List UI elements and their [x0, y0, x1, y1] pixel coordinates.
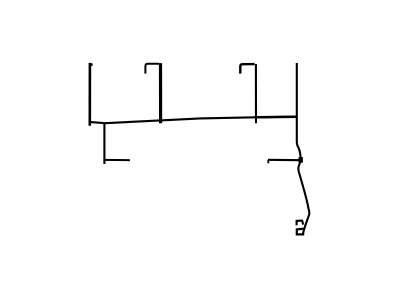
hook stub 1 (left tick of first hook)	[145, 64, 159, 74]
wire: main horizontal bus	[89, 117, 296, 124]
wire: bus right portion (slightly heavier stroke)	[258, 115, 297, 118]
wire: lower-left branch vertical	[103, 123, 105, 164]
hook stub 2 (left tick of second hook)	[240, 64, 254, 74]
node: junction blob on right wavy wire	[299, 158, 302, 163]
wire: first hook vertical drop	[159, 63, 162, 123]
terminal squiggle (bottom scribble glyph)	[297, 221, 305, 235]
wire: second hook vertical drop	[255, 64, 257, 123]
wire: right vertical with wavy lower run	[297, 63, 310, 235]
wire: lower-left branch horizontal	[103, 159, 129, 161]
wire: left vertical segment	[90, 63, 93, 126]
wire: right branch horizontal into node	[268, 160, 301, 164]
